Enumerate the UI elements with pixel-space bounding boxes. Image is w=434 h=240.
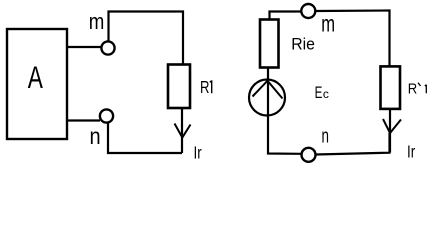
arrowhead: current direction through left load bbox=[175, 124, 191, 138]
wire: lead from box A to terminal n bbox=[67, 119, 100, 121]
arrowhead: EMF direction inside source Ec bbox=[253, 81, 283, 99]
svg-text:n: n bbox=[322, 125, 329, 147]
wire: Rie down into source / through to bottom-left corner bbox=[268, 68, 301, 154]
svg-text:m: m bbox=[89, 11, 105, 35]
svg-text:c: c bbox=[323, 87, 329, 101]
svg-text:Ir: Ir bbox=[407, 143, 416, 162]
svg-text:Rie: Rie bbox=[291, 35, 315, 53]
resistor R' (right load) body bbox=[381, 66, 401, 109]
svg-text:E: E bbox=[315, 83, 323, 101]
svg-text:A: A bbox=[28, 59, 44, 95]
svg-text:R: R bbox=[200, 78, 209, 97]
source Ec (circle) bbox=[249, 80, 285, 116]
label Ec bbox=[315, 83, 329, 101]
svg-text:Ir: Ir bbox=[194, 144, 203, 163]
wire: right-circuit top wire, terminal m to top-right corner bbox=[316, 11, 390, 67]
resistor Rie (internal resistance) body bbox=[260, 20, 279, 68]
arrowhead: current direction through right load bbox=[383, 119, 401, 133]
wire: bottom return wire of left circuit bbox=[108, 123, 182, 153]
svg-text:n: n bbox=[90, 123, 101, 150]
resistor R (left load) body bbox=[168, 65, 190, 109]
wire: right-circuit top wire, left corner to terminal m bbox=[270, 12, 301, 20]
wire: lead from box A to terminal m bbox=[67, 46, 101, 48]
wire: load resistor down to bottom wire (left circuit) bbox=[181, 108, 183, 153]
label R (left load resistor) bbox=[200, 78, 212, 97]
terminal n (left circuit, small circle) bbox=[100, 109, 113, 122]
wire: right-circuit bottom wire, terminal n to bottom-right corner bbox=[316, 133, 390, 155]
wire: terminal m up and across to load resistor (left circuit top) bbox=[109, 12, 184, 65]
label R' (right load resistor) bbox=[408, 81, 427, 97]
two-terminal active network A (box) bbox=[7, 29, 67, 139]
terminal m (right circuit, small circle on top wire) bbox=[301, 4, 315, 18]
wire: R' down to arrow (right circuit) bbox=[389, 109, 391, 153]
svg-text:R: R bbox=[408, 81, 418, 97]
terminal m (left circuit, small circle) bbox=[101, 41, 114, 54]
svg-text:m: m bbox=[321, 12, 335, 37]
terminal n (right circuit, small circle on bottom wire) bbox=[302, 148, 316, 162]
